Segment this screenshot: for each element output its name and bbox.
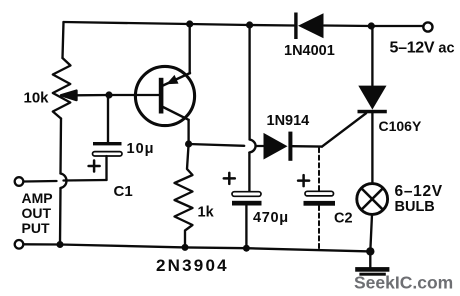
- label 6-12V BULB: [395, 183, 443, 215]
- wire hop2 over gate wire: [249, 140, 255, 153]
- wire hop2 to diode 1N914: [256, 145, 264, 147]
- node SCR anode on rail: [368, 22, 375, 29]
- wire top rail right segment: [324, 24, 424, 27]
- node 1k to ground rail: [182, 244, 189, 251]
- capacitor C3 470u: [224, 173, 262, 248]
- wire base lead: [109, 94, 159, 96]
- svg-text:1N914: 1N914: [267, 113, 310, 129]
- svg-text:1N4001: 1N4001: [284, 43, 335, 59]
- diode D2 1N914: [264, 132, 323, 161]
- svg-text:6–12V: 6–12V: [395, 183, 443, 200]
- potentiometer R1 10k: [53, 58, 109, 119]
- wire amp output to hop: [24, 180, 57, 183]
- wire hop over amp-output wire: [61, 174, 67, 189]
- wire SCR cathode to bulb: [371, 113, 373, 183]
- node ground junction: [366, 247, 374, 255]
- svg-text:10k: 10k: [24, 90, 50, 107]
- terminal 5-12V ac: [423, 22, 432, 31]
- terminal amp output top: [15, 177, 24, 186]
- svg-text:1k: 1k: [198, 205, 215, 221]
- terminal amp output bottom: [15, 240, 24, 249]
- svg-text:BULB: BULB: [395, 199, 435, 215]
- svg-text:C2: C2: [334, 211, 353, 227]
- node emitter junction: [185, 140, 192, 147]
- diode D1 1N4001: [294, 13, 323, 40]
- node 470u to ground rail: [243, 245, 250, 252]
- svg-text:5–12V ac: 5–12V ac: [390, 40, 455, 57]
- wire hop bottom to ground rail: [59, 188, 62, 244]
- svg-text:C106Y: C106Y: [379, 118, 422, 134]
- wire emitter junction to hop2: [189, 144, 245, 146]
- wire collector to top rail: [189, 24, 191, 74]
- node pot bottom on ground rail: [57, 241, 64, 248]
- resistor R2 1k: [175, 144, 193, 247]
- label AMP OUT PUT: [22, 190, 53, 236]
- wire top rail left segment: [64, 22, 295, 26]
- svg-text:470μ: 470μ: [253, 210, 289, 226]
- lamp bulb: [357, 184, 388, 215]
- svg-text:10μ: 10μ: [127, 141, 155, 157]
- wire hop2 to 470u capacitor: [248, 153, 250, 192]
- svg-text:PUT: PUT: [22, 220, 50, 236]
- capacitor C1 10u: [64, 95, 123, 181]
- capacitor C2 dashed optional: [298, 148, 335, 249]
- svg-text:AMP: AMP: [22, 190, 53, 206]
- svg-text:OUT: OUT: [22, 205, 52, 221]
- wire emitter down: [187, 120, 189, 144]
- node wiper junction: [105, 91, 112, 98]
- wire pot bottom to hop: [59, 119, 62, 174]
- wire bulb to ground node: [370, 214, 372, 251]
- svg-text:2N3904: 2N3904: [156, 256, 229, 275]
- svg-text:C1: C1: [114, 183, 133, 200]
- transistor Q1 2N3904: [135, 66, 194, 125]
- wire left vertical from rail to potentiometer: [63, 22, 64, 58]
- wire bottom ground rail: [24, 244, 370, 251]
- wire SCR anode: [371, 26, 373, 86]
- ground: [355, 251, 389, 275]
- wire top rail down to hop2: [248, 25, 250, 140]
- SCR Q2 C106Y: [322, 86, 387, 147]
- node rail to 470u: [246, 21, 253, 28]
- node collector on top rail: [186, 20, 193, 27]
